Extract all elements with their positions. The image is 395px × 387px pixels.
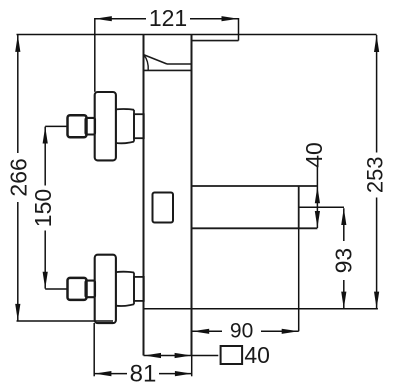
svg-text:81: 81	[130, 361, 157, 387]
svg-text:253: 253	[362, 156, 387, 193]
svg-text:40: 40	[244, 342, 270, 368]
svg-text:90: 90	[230, 320, 253, 343]
svg-text:93: 93	[330, 248, 356, 274]
svg-text:266: 266	[5, 158, 31, 196]
svg-text:150: 150	[30, 189, 56, 227]
svg-text:40: 40	[301, 142, 327, 168]
svg-text:121: 121	[149, 5, 187, 31]
